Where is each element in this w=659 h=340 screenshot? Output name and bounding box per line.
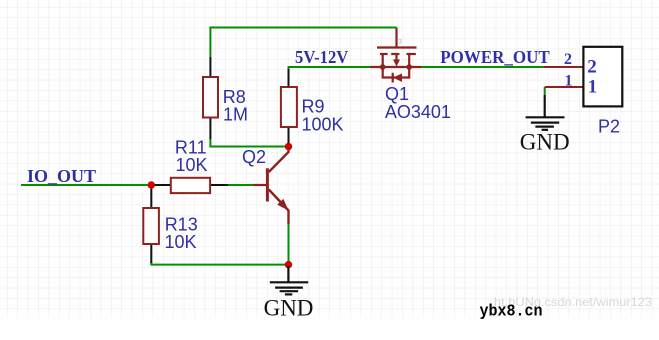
wire: Q2 emitter down to bottom node xyxy=(288,224,290,265)
junction node bottom: emitter/R13/GND xyxy=(285,261,292,268)
svg-text:ybx8.cn: ybx8.cn xyxy=(480,303,543,322)
svg-text:POWER_OUT: POWER_OUT xyxy=(440,47,549,67)
svg-text:1M: 1M xyxy=(223,105,248,125)
resistor R8 xyxy=(203,57,218,139)
wire: bottom wire R13 to GND node xyxy=(151,262,288,265)
wire: IO_OUT net wire xyxy=(21,184,151,186)
svg-text:2: 2 xyxy=(587,57,597,78)
transistor Q2 NPN xyxy=(253,147,289,225)
svg-text:1: 1 xyxy=(588,76,598,97)
junction node IO_OUT/R11/R13 xyxy=(148,181,155,188)
svg-text:1: 1 xyxy=(565,72,573,89)
svg-text:IO_OUT: IO_OUT xyxy=(27,166,96,186)
resistor R9 xyxy=(281,69,297,147)
junction node A: R8/R9/Q2 collector xyxy=(285,143,292,150)
transistor Q1 PMOS AO3401 xyxy=(371,28,422,83)
svg-text:5V-12V: 5V-12V xyxy=(295,47,348,67)
svg-text:AO3401: AO3401 xyxy=(385,102,451,122)
connector P2 xyxy=(543,47,622,107)
svg-text:100K: 100K xyxy=(302,114,344,134)
svg-text:10K: 10K xyxy=(176,155,208,175)
ground GND (right, under P2 pin1) xyxy=(526,95,565,130)
wire: top wire from R8 to Q1 gate xyxy=(210,28,396,58)
wire: POWER_OUT net wire xyxy=(421,66,543,68)
wire: 5V-12V net wire to Q1 source xyxy=(289,67,372,71)
svg-text:GND: GND xyxy=(264,295,314,320)
svg-text:P2: P2 xyxy=(598,117,620,137)
wire: R11 to Q2 base xyxy=(228,184,253,186)
resistor R13 xyxy=(143,187,159,263)
svg-text:Q2: Q2 xyxy=(242,147,266,167)
svg-text:2: 2 xyxy=(564,51,572,68)
ground GND (left, under Q2) xyxy=(270,266,308,294)
wire: R8 bottom to node A xyxy=(210,138,288,147)
svg-text:GND: GND xyxy=(520,130,570,155)
wire: P2 pin1 to ground drop xyxy=(544,87,546,95)
svg-text:3: 3 xyxy=(398,39,402,46)
svg-text:10K: 10K xyxy=(165,232,197,252)
resistor R11 xyxy=(151,178,228,193)
